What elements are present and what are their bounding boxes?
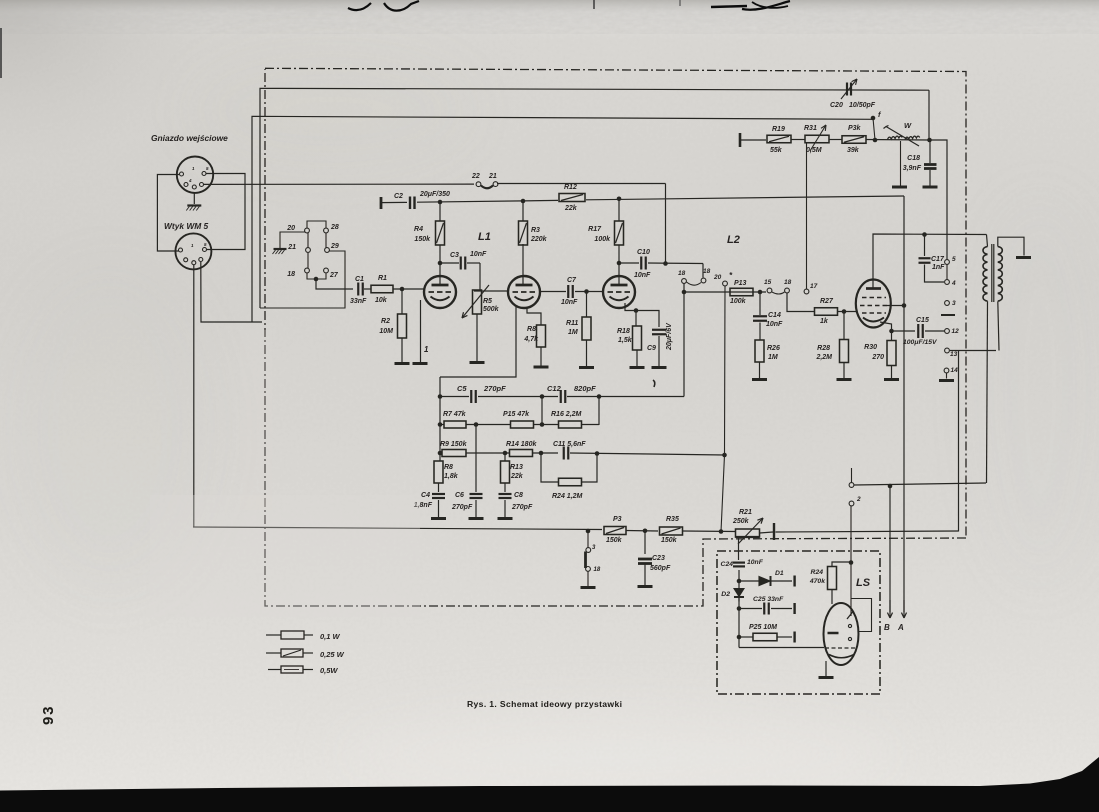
- svg-text:1,5k: 1,5k: [618, 337, 633, 344]
- svg-text:10nF: 10nF: [766, 321, 783, 328]
- svg-text:270pF: 270pF: [451, 504, 473, 511]
- svg-text:R19: R19: [772, 126, 785, 133]
- svg-text:1M: 1M: [768, 354, 778, 361]
- svg-text:R3: R3: [531, 227, 540, 234]
- svg-text:0,25 W: 0,25 W: [320, 650, 345, 659]
- svg-text:R24: R24: [811, 569, 824, 576]
- svg-text:10k: 10k: [375, 297, 388, 304]
- svg-text:10nF: 10nF: [470, 251, 487, 258]
- svg-text:270pF: 270pF: [483, 384, 506, 393]
- svg-text:270: 270: [871, 354, 884, 361]
- svg-text:R1: R1: [378, 275, 387, 282]
- svg-text:18: 18: [594, 567, 601, 573]
- svg-text:R2: R2: [381, 318, 390, 325]
- svg-text:28: 28: [330, 224, 339, 231]
- svg-text:3: 3: [952, 300, 956, 307]
- svg-text:C6: C6: [455, 492, 464, 499]
- svg-text:1M: 1M: [568, 329, 578, 336]
- svg-text:22: 22: [471, 173, 480, 180]
- svg-text:C1: C1: [355, 276, 364, 283]
- svg-text:C10: C10: [637, 249, 650, 256]
- svg-text:15: 15: [764, 279, 772, 286]
- svg-text:R11: R11: [566, 320, 578, 327]
- svg-text:14: 14: [951, 367, 959, 374]
- svg-text:12: 12: [952, 328, 960, 335]
- svg-text:C9: C9: [647, 345, 656, 352]
- svg-text:C3: C3: [450, 252, 459, 259]
- svg-text:470k: 470k: [809, 578, 826, 585]
- svg-text:55k: 55k: [770, 147, 783, 154]
- svg-text:22k: 22k: [564, 205, 578, 212]
- svg-text:C11 5,6nF: C11 5,6nF: [553, 441, 586, 448]
- svg-text:C2: C2: [394, 193, 403, 200]
- svg-text:C7: C7: [567, 277, 577, 284]
- svg-text:27: 27: [329, 272, 339, 279]
- svg-text:C4: C4: [421, 492, 430, 499]
- svg-text:R7 47k: R7 47k: [443, 411, 467, 418]
- svg-text:29: 29: [330, 243, 339, 250]
- svg-text:820pF: 820pF: [574, 384, 596, 393]
- svg-text:Gniazdo wejściowe: Gniazdo wejściowe: [151, 133, 228, 143]
- svg-text:R27: R27: [820, 298, 834, 305]
- svg-text:18: 18: [287, 271, 295, 278]
- svg-text:1: 1: [424, 345, 429, 354]
- svg-text:150k: 150k: [606, 537, 623, 544]
- svg-text:R5: R5: [483, 298, 492, 305]
- svg-text:R8: R8: [527, 326, 536, 333]
- svg-text:21: 21: [287, 244, 296, 251]
- svg-text:1k: 1k: [820, 318, 829, 325]
- svg-text:R14 180k: R14 180k: [506, 441, 537, 448]
- svg-text:C23: C23: [652, 555, 665, 562]
- svg-text:1,8k: 1,8k: [444, 473, 459, 480]
- svg-text:C17: C17: [931, 256, 945, 263]
- svg-text:D1: D1: [775, 570, 784, 577]
- svg-text:18: 18: [784, 279, 792, 286]
- svg-text:D2: D2: [721, 591, 730, 598]
- svg-text:P15 47k: P15 47k: [503, 411, 530, 418]
- svg-text:100k: 100k: [594, 236, 611, 243]
- svg-text:R4: R4: [414, 226, 423, 233]
- svg-text:150k: 150k: [661, 537, 678, 544]
- svg-text:22k: 22k: [510, 473, 524, 480]
- svg-text:5: 5: [952, 256, 956, 263]
- svg-text:R24 1,2M: R24 1,2M: [552, 493, 583, 500]
- svg-text:B: B: [884, 623, 890, 632]
- svg-text:R8: R8: [444, 464, 453, 471]
- svg-text:R21: R21: [739, 509, 752, 516]
- svg-text:R12: R12: [564, 184, 577, 191]
- svg-text:10/50pF: 10/50pF: [849, 102, 876, 109]
- svg-text:R17: R17: [588, 226, 602, 233]
- svg-text:P25 10M: P25 10M: [749, 624, 777, 631]
- svg-text:C5: C5: [457, 384, 467, 393]
- svg-text:560pF: 560pF: [650, 565, 671, 572]
- svg-text:L2: L2: [727, 234, 740, 246]
- svg-text:20: 20: [713, 274, 722, 281]
- svg-text:R30: R30: [864, 344, 877, 351]
- svg-text:20μF/6V: 20μF/6V: [666, 322, 673, 351]
- svg-text:1nF: 1nF: [932, 264, 945, 271]
- svg-text:150k: 150k: [414, 236, 431, 243]
- svg-text:W: W: [904, 121, 912, 130]
- svg-text:C8: C8: [514, 492, 523, 499]
- svg-text:R28: R28: [817, 345, 830, 352]
- svg-text:20μF/350: 20μF/350: [419, 191, 450, 198]
- svg-text:220k: 220k: [530, 236, 548, 243]
- svg-text:100k: 100k: [730, 298, 747, 305]
- svg-text:C24: C24: [721, 561, 734, 568]
- svg-text:10nF: 10nF: [634, 272, 651, 279]
- svg-text:P3: P3: [613, 516, 622, 523]
- svg-text:P3k: P3k: [848, 125, 862, 132]
- svg-text:R9 150k: R9 150k: [440, 441, 468, 448]
- svg-text:0,5M: 0,5M: [806, 147, 822, 154]
- svg-text:C12: C12: [547, 384, 562, 393]
- svg-text:3,9nF: 3,9nF: [903, 165, 922, 172]
- svg-text:13: 13: [950, 351, 958, 358]
- svg-text:4: 4: [188, 178, 192, 183]
- svg-text:A: A: [897, 623, 904, 632]
- svg-text:C18: C18: [907, 155, 920, 162]
- svg-text:18: 18: [678, 270, 686, 277]
- svg-text:R26: R26: [767, 345, 780, 352]
- svg-text:L1: L1: [478, 231, 491, 243]
- svg-text:2,2M: 2,2M: [815, 354, 832, 361]
- svg-text:10nF: 10nF: [561, 299, 578, 306]
- svg-text:C25 33nF: C25 33nF: [753, 596, 784, 603]
- svg-text:4,7k: 4,7k: [523, 336, 539, 343]
- svg-text:C15: C15: [916, 317, 929, 324]
- svg-text:17: 17: [810, 283, 818, 290]
- svg-text:4: 4: [951, 280, 956, 287]
- svg-text:270pF: 270pF: [511, 504, 533, 511]
- svg-text:500k: 500k: [483, 306, 500, 313]
- svg-text:C14: C14: [768, 312, 781, 319]
- svg-text:R16 2,2M: R16 2,2M: [551, 411, 582, 418]
- svg-text:20: 20: [286, 225, 295, 232]
- svg-text:R31: R31: [804, 125, 817, 132]
- svg-text:Wtyk WM 5: Wtyk WM 5: [164, 221, 209, 231]
- svg-text:C20: C20: [830, 102, 843, 109]
- svg-text:LS: LS: [856, 577, 871, 589]
- svg-text:21: 21: [488, 173, 497, 180]
- svg-text:0,5W: 0,5W: [320, 666, 338, 675]
- svg-text:R18: R18: [617, 328, 630, 335]
- svg-text:100μF/15V: 100μF/15V: [903, 339, 938, 346]
- svg-text:93: 93: [40, 705, 57, 725]
- svg-text:33nF: 33nF: [350, 298, 367, 305]
- svg-text:0,1 W: 0,1 W: [320, 632, 341, 641]
- svg-text:R35: R35: [666, 516, 679, 523]
- svg-text:39k: 39k: [847, 147, 860, 154]
- svg-text:18: 18: [703, 268, 711, 275]
- svg-text:2: 2: [856, 496, 861, 503]
- svg-text:P13: P13: [734, 280, 747, 287]
- svg-text:10M: 10M: [379, 328, 393, 335]
- svg-text:10nF: 10nF: [747, 559, 764, 566]
- svg-text:250k: 250k: [732, 518, 750, 525]
- svg-text:R13: R13: [510, 464, 523, 471]
- svg-text:Rys. 1. Schemat ideowy przysta: Rys. 1. Schemat ideowy przystawki: [467, 699, 622, 709]
